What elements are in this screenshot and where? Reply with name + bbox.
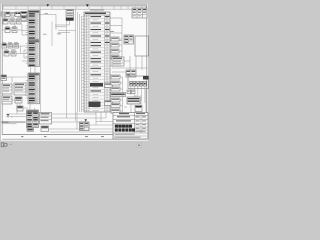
sensor B5 <box>12 26 17 33</box>
wire <box>78 12 85 112</box>
lamp E5 <box>111 75 120 79</box>
connector CN5 <box>66 10 74 21</box>
wire <box>6 108 35 118</box>
wire <box>119 39 122 66</box>
node zone-mark A <box>47 4 50 7</box>
node arrow <box>85 119 88 121</box>
relay module K6 <box>14 83 26 95</box>
wire <box>26 15 29 98</box>
control unit A3 <box>2 96 12 104</box>
wire <box>89 112 113 125</box>
fuse block F1 <box>124 35 134 44</box>
lamp E9 <box>111 104 120 108</box>
wire <box>2 30 28 35</box>
wire <box>7 77 29 83</box>
lamp E6 <box>111 81 120 85</box>
connector CN4 <box>27 110 39 128</box>
terminal X2 <box>105 101 113 106</box>
sensor B4 <box>5 26 10 33</box>
connector CN3 <box>28 73 40 104</box>
control unit A1 <box>1 75 7 81</box>
vendor logo <box>1 143 12 147</box>
wire <box>15 22 28 36</box>
wire <box>131 86 145 103</box>
diode D1 <box>11 13 15 17</box>
lamp E2 <box>111 43 119 47</box>
relay K4 <box>21 16 27 20</box>
sensor B2 <box>10 18 15 25</box>
control unit A4 <box>112 57 124 66</box>
lamp E10 <box>111 109 120 113</box>
wire <box>12 85 28 91</box>
relay K5 <box>2 42 7 48</box>
wire <box>112 56 148 72</box>
ground bus label <box>111 93 126 97</box>
margin stamp <box>137 143 141 147</box>
wire <box>49 112 114 132</box>
connector CN2 <box>28 40 40 66</box>
capacitor C1 <box>127 90 131 94</box>
relay K3 <box>21 12 27 16</box>
wire <box>12 100 30 114</box>
connector CN4 footer <box>27 128 34 131</box>
ground <box>7 114 10 116</box>
wire <box>31 66 36 73</box>
switch S1 <box>15 12 21 17</box>
control unit A2 <box>2 84 12 94</box>
note text <box>2 122 26 125</box>
junction box J1 <box>126 70 136 77</box>
wire <box>43 21 76 35</box>
lamp E4 <box>111 55 119 59</box>
wire <box>110 18 122 66</box>
sensor B8 <box>11 50 16 57</box>
lamp E8 <box>111 98 120 102</box>
sensor B1 <box>3 18 8 25</box>
resistor R2 <box>17 106 23 111</box>
lamp E3 <box>111 49 119 53</box>
terminal X1 <box>105 83 113 88</box>
resistor R1 <box>15 97 22 103</box>
lamp E1 <box>111 37 119 41</box>
wire <box>120 77 123 116</box>
buzzer H1 <box>41 126 49 132</box>
cab module M1 <box>135 36 149 56</box>
connector CN1 <box>28 11 40 40</box>
resistor R3 <box>127 97 140 104</box>
node zone-mark B <box>86 4 89 7</box>
relay K1 <box>1 12 5 16</box>
diode D2 <box>8 42 13 48</box>
wire <box>124 89 146 115</box>
wire <box>2 16 28 22</box>
wire <box>2 46 28 54</box>
frame zone labels <box>21 135 104 138</box>
relay K2 <box>6 12 11 17</box>
wire <box>9 50 28 61</box>
relay K8 <box>80 122 90 131</box>
lamp E7 <box>111 87 120 91</box>
harness table W1 <box>84 12 110 112</box>
relay K7 <box>135 106 142 112</box>
capacitor C2 <box>132 90 136 94</box>
sensor B6 <box>14 42 19 48</box>
sensor B7 <box>4 50 9 57</box>
revision table RT1 <box>132 8 147 18</box>
wire <box>38 9 76 121</box>
node table label <box>90 9 104 12</box>
title block <box>113 113 148 140</box>
cab module M2 <box>128 76 149 89</box>
flasher unit A5 <box>40 113 52 125</box>
sensor B3 <box>17 18 22 25</box>
terminal strip X3 <box>130 82 147 87</box>
